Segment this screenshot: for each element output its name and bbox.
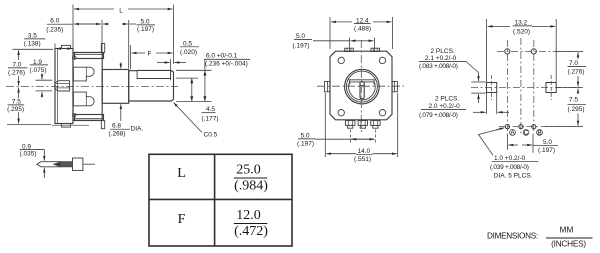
svg-text:(.520): (.520) — [513, 28, 530, 35]
svg-text:(.039 +.008/-0): (.039 +.008/-0) — [490, 164, 529, 171]
front view side tab left — [325, 81, 330, 91]
svg-text:DIMENSIONS:: DIMENSIONS: — [487, 231, 538, 240]
front view top tab right — [371, 48, 380, 51]
front view centerline horizontal — [317, 85, 404, 87]
terminal detail — [37, 150, 95, 178]
svg-text:7.0: 7.0 — [569, 60, 578, 67]
svg-text:7.5: 7.5 — [12, 99, 21, 106]
svg-text:(.295): (.295) — [7, 106, 24, 113]
front view shaft slot — [360, 82, 364, 99]
svg-text:6.0: 6.0 — [50, 17, 59, 24]
dim 7.5 right — [577, 89, 579, 94]
dim 13.2 — [486, 19, 488, 82]
leader 1.0 dia — [479, 129, 501, 155]
side view body: terminal cover column — [55, 49, 73, 124]
svg-text:(.075): (.075) — [30, 67, 47, 74]
pcb bracket hole right — [531, 49, 536, 54]
side view top stub terminal — [62, 45, 71, 48]
front view shaft circle — [349, 82, 376, 100]
pcb column line B — [533, 40, 535, 134]
dim 14.0 — [324, 93, 326, 157]
side view shaft — [129, 70, 174, 101]
svg-text:(.083 +.008/-0): (.083 +.008/-0) — [419, 63, 458, 70]
front view body — [330, 51, 392, 120]
svg-text:(.488): (.488) — [354, 25, 371, 32]
pcb row line bottom — [499, 126, 584, 128]
dim L — [72, 5, 74, 59]
svg-text:L: L — [119, 8, 123, 15]
svg-text:C: C — [524, 129, 529, 136]
side view internal terminal lower — [73, 92, 94, 106]
svg-text:MM: MM — [560, 226, 574, 235]
dim 0.5 shaft tip — [170, 59, 172, 80]
table — [149, 154, 292, 246]
side view bottom stub terminal — [62, 124, 71, 128]
side view bottom mounting tab — [75, 115, 104, 121]
front view inner ring — [346, 71, 377, 102]
dim 2.0 square width — [486, 93, 488, 115]
svg-text:(.197): (.197) — [297, 140, 314, 147]
svg-text:(.177): (.177) — [202, 115, 219, 122]
front view — [313, 17, 404, 157]
svg-text:(.236 +0/-.004): (.236 +0/-.004) — [205, 60, 248, 67]
svg-text:2 PLCS.: 2 PLCS. — [431, 48, 455, 55]
dim 5.0 top tabs — [349, 38, 351, 52]
side view bottom bent terminal tail — [52, 124, 89, 126]
dim 1.9 pin — [36, 79, 53, 81]
front view outer ring — [345, 69, 380, 104]
side view shaft flat pocket — [137, 70, 171, 78]
front view corner hole BL — [338, 110, 344, 116]
svg-text:B: B — [537, 129, 541, 136]
svg-text:(.020): (.020) — [180, 49, 197, 56]
svg-text:2.1 +0.2/-0: 2.1 +0.2/-0 — [425, 55, 457, 62]
svg-text:L: L — [177, 166, 186, 181]
pcb terminal hole C — [519, 125, 523, 129]
dim 3.5 — [54, 44, 56, 49]
svg-text:(.295): (.295) — [568, 106, 585, 113]
leader C0.5 — [174, 103, 203, 133]
svg-text:DIA. 5 PLCS.: DIA. 5 PLCS. — [494, 172, 533, 179]
pcb column line A — [506, 40, 508, 134]
front view centerline vertical — [360, 40, 362, 132]
svg-text:(.276): (.276) — [568, 68, 585, 75]
side view top mounting tab — [75, 53, 104, 59]
dimensions note — [487, 226, 593, 249]
svg-text:(.276): (.276) — [8, 70, 25, 77]
side view dimension texts — [7, 8, 248, 139]
svg-text:(.197): (.197) — [137, 26, 154, 33]
svg-text:(.472): (.472) — [234, 224, 268, 239]
dim 7.0 left — [13, 48, 54, 50]
pcb letter A circle — [510, 130, 516, 136]
svg-text:A: A — [510, 129, 515, 136]
svg-text:DIA.: DIA. — [131, 126, 144, 133]
front view corner hole TL — [338, 57, 344, 63]
svg-text:2.0 +0.2/-0: 2.0 +0.2/-0 — [429, 103, 461, 110]
side view center pin — [55, 81, 70, 91]
pcb terminal hole B — [532, 125, 536, 129]
svg-text:2 PLCS.: 2 PLCS. — [435, 96, 459, 103]
side view bottom bracket leg — [101, 121, 104, 129]
dim 6.0 body width — [101, 20, 103, 52]
pcb row line middle — [471, 87, 583, 89]
pcb row line top — [497, 50, 583, 52]
svg-text:0.5: 0.5 — [183, 40, 192, 47]
svg-text:(.984): (.984) — [234, 179, 268, 194]
front view slot pivot — [360, 81, 364, 85]
svg-text:3.5: 3.5 — [28, 32, 37, 39]
dim 2.1 square height — [471, 81, 485, 83]
pcb square center verticals — [491, 75, 493, 100]
front view terminal 2 — [358, 121, 367, 126]
svg-text:F: F — [148, 51, 152, 58]
dim 6.0 shaft dia — [176, 69, 212, 71]
dim 5.0 bottom right — [506, 134, 508, 150]
pcb layout view — [466, 19, 583, 155]
side view internal terminal upper — [73, 67, 94, 81]
dim F — [130, 45, 132, 69]
dim 12.4 — [329, 17, 331, 49]
pcb letter B circle — [537, 130, 543, 136]
dim 5.0 bottom terminals — [349, 130, 351, 145]
svg-text:F: F — [178, 212, 186, 227]
side view bushing — [102, 70, 129, 104]
svg-text:7.0: 7.0 — [12, 62, 21, 69]
svg-text:5.0: 5.0 — [141, 19, 150, 26]
svg-text:(.079 +.008/-0): (.079 +.008/-0) — [419, 112, 458, 119]
svg-text:(.138): (.138) — [24, 40, 41, 47]
front view corner hole BR — [379, 110, 385, 116]
svg-text:4.5: 4.5 — [206, 106, 215, 113]
dim 7.5 left — [7, 124, 51, 126]
svg-text:C0.5: C0.5 — [204, 132, 218, 139]
dim 6.8 dia bushing — [120, 63, 122, 69]
front view terminal 3 — [371, 121, 380, 126]
svg-text:(.035): (.035) — [20, 150, 37, 157]
pcb letter C circle — [523, 130, 529, 136]
svg-text:(.235): (.235) — [46, 27, 63, 34]
pcb square cutout right — [546, 83, 556, 93]
front view top tab left — [345, 48, 354, 51]
dim 4.5 flat — [176, 77, 198, 79]
front view terminal 1 — [346, 121, 355, 126]
svg-text:6.0 +0/-0.1: 6.0 +0/-0.1 — [206, 53, 238, 60]
front view flat end hooks — [349, 80, 351, 85]
front view shaft flat chord — [348, 79, 375, 81]
svg-text:5.0: 5.0 — [296, 33, 305, 40]
svg-text:(INCHES): (INCHES) — [551, 239, 586, 248]
dim 7.0 right — [555, 50, 583, 52]
svg-text:25.0: 25.0 — [236, 163, 261, 178]
svg-text:1.0 +0.2/-0: 1.0 +0.2/-0 — [494, 155, 526, 162]
side view tab pivot circles — [72, 56, 76, 60]
svg-text:5.0: 5.0 — [301, 132, 310, 139]
svg-text:12.0: 12.0 — [236, 208, 261, 223]
pcb square cutout left — [487, 83, 497, 93]
svg-text:(.197): (.197) — [293, 42, 310, 49]
svg-text:(.197): (.197) — [538, 147, 555, 154]
side view main body — [73, 53, 102, 121]
pcb terminal hole A — [505, 125, 509, 129]
svg-text:13.2: 13.2 — [515, 19, 528, 26]
svg-text:5.0: 5.0 — [543, 139, 552, 146]
dim 5.0 bushing — [128, 20, 130, 69]
pcb column line C center — [520, 38, 522, 134]
front view side tab right — [392, 81, 397, 91]
side view centerline — [6, 85, 178, 87]
front view corner hole TR — [379, 57, 385, 63]
pcb bracket hole left — [505, 49, 510, 54]
svg-text:(.268): (.268) — [109, 130, 126, 137]
svg-text:(.551): (.551) — [354, 156, 371, 163]
svg-text:14.0: 14.0 — [358, 148, 371, 155]
svg-text:7.5: 7.5 — [569, 96, 578, 103]
side view top bracket leg — [101, 44, 104, 53]
svg-text:6.8: 6.8 — [112, 123, 121, 130]
